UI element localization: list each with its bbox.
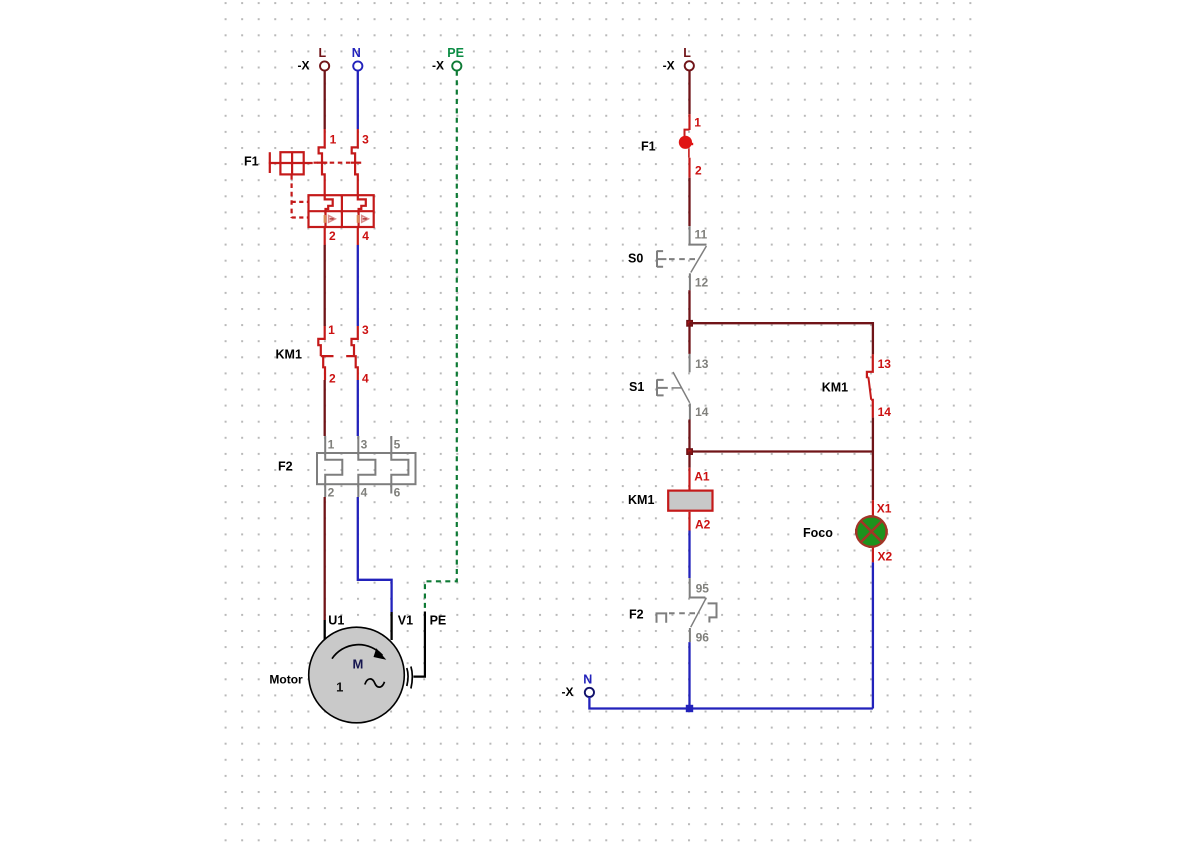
F2 NC pin labels 95 96 [696, 582, 710, 645]
contactor KM1 auxiliary contact [867, 354, 873, 417]
svg-text:F1: F1 [244, 155, 259, 169]
svg-text:11: 11 [694, 228, 707, 242]
svg-text:Foco: Foco [803, 526, 833, 540]
terminal -X N (bottom) [562, 672, 595, 699]
wire (KM1 aux down to rail B) [872, 418, 874, 452]
svg-text:4: 4 [362, 372, 369, 386]
svg-text:KM1: KM1 [276, 348, 302, 362]
svg-text:A1: A1 [694, 469, 710, 483]
F2 pole 2 lead and meander [358, 436, 375, 497]
svg-text:2: 2 [328, 486, 335, 500]
KM1 pin labels 1 3 2 4 [328, 323, 369, 386]
svg-text:S0: S0 [628, 252, 643, 266]
F1 pole 1 crossbar [317, 162, 327, 164]
wire (fuse to S0) [688, 178, 690, 226]
svg-text:6: 6 [394, 486, 401, 500]
svg-text:3: 3 [362, 323, 369, 337]
wire N (terminal to F1) [357, 71, 359, 129]
svg-text:1: 1 [694, 115, 701, 129]
svg-text:PE: PE [447, 46, 464, 60]
terminal -X L (right) [663, 46, 694, 73]
F2 box [317, 453, 416, 484]
F1 manual actuator square with cross [269, 152, 313, 174]
motor M1 body [309, 627, 405, 723]
wire (node A to S1) [688, 323, 690, 354]
svg-text:N: N [352, 46, 361, 60]
svg-text:F2: F2 [278, 460, 293, 474]
svg-text:2: 2 [695, 164, 702, 178]
svg-text:S1: S1 [629, 380, 644, 394]
svg-text:3: 3 [361, 437, 368, 451]
F1 thermal hook pole 1 [325, 195, 333, 227]
wire L control (terminal to F1 fuse) [688, 71, 690, 115]
svg-text:PE: PE [430, 614, 447, 628]
F1 pole 2 crossbar [351, 162, 362, 164]
S0 pin labels 11 12 [694, 228, 708, 290]
wire PE dashed green [425, 71, 457, 611]
node C junction (bottom bus) [686, 705, 693, 712]
svg-text:4: 4 [362, 229, 369, 243]
svg-text:A2: A2 [695, 518, 711, 532]
svg-text:F2: F2 [629, 608, 644, 622]
wire neutral (lamp to bottom bus) [872, 562, 874, 708]
svg-text:13: 13 [878, 357, 892, 371]
lamp Foco [855, 515, 888, 548]
wire N (F2 to motor V1) [358, 497, 392, 612]
svg-text:3: 3 [362, 133, 369, 147]
pushbutton S1 (NO start) [657, 354, 690, 420]
F1 pin labels 1 3 2 4 [329, 133, 369, 244]
svg-text:M: M [352, 657, 363, 672]
svg-text:12: 12 [695, 276, 709, 290]
motor terminal labels U1 V1 PE [328, 614, 446, 628]
svg-text:4: 4 [361, 486, 368, 500]
F2 NC hook [708, 603, 717, 622]
wire neutral (coil A2 to F2) [688, 531, 690, 579]
F2 thermal actuator [657, 613, 667, 622]
svg-text:KM1: KM1 [822, 381, 848, 395]
svg-text:1: 1 [336, 679, 343, 694]
wire L (F1 to KM1) [324, 245, 326, 326]
S0 actuator [657, 251, 666, 268]
wire top rail (node A to KM1 aux branch) [689, 323, 873, 354]
svg-text:2: 2 [329, 372, 336, 386]
F1 pole 2 contact [352, 129, 358, 195]
coil KM1 lead A2 [688, 512, 690, 531]
S1 pin labels 13 14 [695, 357, 709, 419]
F1 fuse pin labels 1 2 [694, 115, 702, 177]
svg-text:V1: V1 [398, 614, 413, 628]
wire (F2 to bottom bus) [688, 642, 690, 708]
svg-text:F1: F1 [641, 140, 656, 154]
F1 trip linkage dashed [314, 162, 351, 164]
terminal N (left) [352, 46, 363, 71]
motor lead U1 black [324, 620, 326, 640]
motor PE lead black [414, 612, 425, 677]
KM1 pole 2 [346, 326, 358, 380]
terminal -X PE (left) [432, 46, 464, 73]
svg-text:14: 14 [695, 405, 709, 419]
svg-text:L: L [683, 46, 691, 60]
F1 pole 1 contact [319, 129, 325, 195]
F2 pole 3 lead and meander [391, 436, 408, 494]
svg-text:1: 1 [328, 437, 335, 451]
svg-text:N: N [583, 672, 592, 686]
wire (node B to coil) [688, 452, 690, 468]
wire N (F1 to KM1) [357, 245, 359, 326]
F1 magnetic trip symbol I> pole 2 [357, 215, 369, 223]
motor rotation arrow [332, 645, 386, 660]
svg-text:1: 1 [330, 133, 337, 147]
svg-text:-X: -X [663, 59, 675, 73]
wire (S1 to node B) [688, 420, 690, 452]
svg-text:96: 96 [696, 631, 710, 645]
motor tilde ~ [365, 679, 385, 687]
svg-text:95: 95 [696, 582, 710, 596]
contactor KM1 main contacts [318, 326, 358, 380]
svg-text:-X: -X [562, 685, 574, 699]
node A junction [686, 320, 693, 327]
wire N (KM1 to F2) [357, 380, 359, 436]
svg-text:Motor: Motor [269, 673, 303, 687]
F1 pole 2 bottom lead [357, 227, 359, 245]
motor lead V1 black [390, 612, 392, 640]
svg-text:L: L [319, 46, 327, 60]
node B junction [686, 448, 693, 455]
svg-text:U1: U1 [328, 614, 344, 628]
svg-text:2: 2 [329, 229, 336, 243]
F1 pole 1 bottom lead [324, 227, 326, 245]
svg-text:13: 13 [695, 357, 709, 371]
fuse F1 (control) [679, 114, 693, 178]
wire (S0 to node A) [688, 290, 690, 323]
S1 actuator [657, 379, 668, 396]
svg-text:-X: -X [432, 59, 444, 73]
F2 pole 1 lead and meander [325, 436, 342, 497]
wire L phase (terminal to F1) [324, 71, 326, 129]
wire neutral bottom bus [589, 697, 873, 709]
coil KM1 [668, 491, 712, 511]
svg-text:14: 14 [878, 405, 892, 419]
F1 magnetic trip symbol I> pole 1 [324, 215, 336, 223]
svg-text:X1: X1 [877, 501, 892, 515]
wire L (F2 to motor U1) [324, 497, 326, 620]
lamp X1 lead [872, 500, 874, 515]
svg-text:-X: -X [298, 59, 310, 73]
KM1 coil pin labels A1 A2 [694, 469, 710, 531]
lamp pin labels X1 X2 [877, 501, 893, 563]
KM1 aux pin labels 13 14 [878, 357, 892, 419]
motor PE earth connector arcs [407, 667, 413, 689]
lamp X2 lead [872, 548, 874, 563]
F1 overload box [309, 195, 374, 227]
svg-text:5: 5 [394, 437, 401, 451]
wire L (KM1 to F2) [324, 380, 326, 436]
breaker F1 (motor circuit breaker) [269, 129, 374, 245]
svg-text:KM1: KM1 [628, 493, 654, 507]
F1 thermal hook pole 2 [358, 195, 366, 227]
lamp branch: wire (rail B to lamp) [872, 452, 874, 501]
F2 pin labels 1 3 5 2 4 6 [328, 437, 401, 499]
svg-text:X2: X2 [878, 550, 893, 564]
contact F2 NC (overload trip) [657, 578, 717, 642]
wire rail B [689, 450, 873, 452]
overload relay F2 (left) [317, 436, 416, 497]
terminal -X L (left) [298, 46, 330, 73]
svg-text:1: 1 [328, 323, 335, 337]
pushbutton S0 (NC stop) [657, 226, 706, 290]
KM1 pole 1 [318, 326, 333, 380]
coil KM1 lead A1 [688, 468, 690, 490]
